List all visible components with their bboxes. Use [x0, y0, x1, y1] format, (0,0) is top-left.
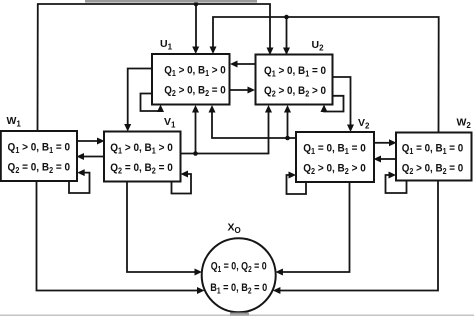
wire branch W2 to U2 top: [286, 17, 288, 49]
junction dot W2 line to U2: [284, 15, 289, 20]
junction dot V1 line to U1: [193, 151, 198, 156]
arrowhead W1 to U1: [192, 47, 199, 55]
self-loop W1: [69, 173, 90, 193]
wire V1 to U2 (horizontal with branch): [181, 112, 269, 154]
wire V2 to W2: [374, 142, 390, 144]
arrowhead self-loop W2: [389, 172, 397, 179]
wire W2 top to U1/U2 (outer right + second line): [213, 17, 439, 133]
self-loop V1: [172, 174, 192, 194]
arrowhead W1 to V1: [97, 138, 105, 145]
arrowhead V1 to X0: [195, 269, 203, 276]
self-loop V2: [287, 175, 307, 194]
wire U1 to V1: [128, 69, 152, 126]
self-loop U2: [324, 96, 344, 112]
arrowhead U1 to U2: [248, 87, 256, 94]
wire U1 to U2: [230, 89, 249, 91]
scan smudge at circle bottom: [230, 313, 249, 316]
scan smudge top edge: [85, 0, 257, 3]
arrowhead self-loop V1: [181, 171, 189, 178]
wire V1 to W1: [84, 156, 105, 158]
wire V2 to X0: [282, 182, 350, 272]
arrowhead self-loop U1: [157, 105, 164, 113]
arrowhead V2 to U1: [209, 105, 216, 113]
wire W1 to V1: [77, 140, 98, 142]
wire W2 to V2: [381, 158, 397, 160]
arrowhead W2 to X0: [273, 287, 281, 294]
arrowhead W2 to U2: [283, 48, 290, 56]
wire W2 to X0: [280, 181, 439, 291]
arrowhead W1 to U2: [267, 48, 274, 56]
arrowhead U2 to V2: [347, 125, 354, 133]
wire W1 to X0: [37, 181, 199, 291]
wire branch W1 to U1 top: [195, 4, 197, 48]
wire U2 to U1: [237, 63, 256, 65]
state box W1: [1, 131, 77, 181]
arrowhead V1 to W1: [77, 153, 85, 160]
state box W2: [396, 133, 472, 181]
wire W1 top to U1/U2 (outer left + top line): [38, 4, 271, 131]
arrowhead U1 to V1: [124, 124, 131, 132]
arrowhead W1 to X0: [197, 287, 205, 294]
state circle X0: [202, 238, 276, 312]
arrowhead U2 to U1: [230, 61, 238, 68]
arrowhead V2 to U2: [284, 105, 291, 113]
state box V2: [296, 132, 374, 182]
arrowhead W2 to V2: [374, 156, 382, 163]
junction dot W1 line to U1: [194, 2, 199, 7]
arrowhead V2 to W2: [389, 139, 397, 146]
arrowhead self-loop V2: [289, 172, 297, 179]
state box U2: [256, 55, 333, 105]
arrowhead self-loop W1: [77, 169, 85, 176]
self-loop W2: [386, 175, 407, 193]
wire branch V1 to U1: [195, 112, 197, 154]
arrowhead V2 to X0: [275, 269, 283, 276]
junction dot V2 line to U2: [285, 136, 290, 141]
self-loop U1: [141, 94, 161, 112]
state box V1: [104, 132, 181, 182]
wire V2 to U1 (horizontal with branch): [212, 112, 296, 139]
arrowhead V1 to U1: [192, 105, 199, 113]
wire U2 to V2: [333, 77, 351, 126]
state box U1: [152, 54, 230, 105]
scan edge line bottom: [0, 315, 474, 316]
wire branch V2 to U2: [287, 112, 289, 139]
arrowhead self-loop U2: [321, 105, 328, 113]
arrowhead W2 to U1: [210, 47, 217, 55]
wire V1 to X0: [127, 182, 196, 273]
arrowhead V1 to U2: [265, 105, 272, 113]
